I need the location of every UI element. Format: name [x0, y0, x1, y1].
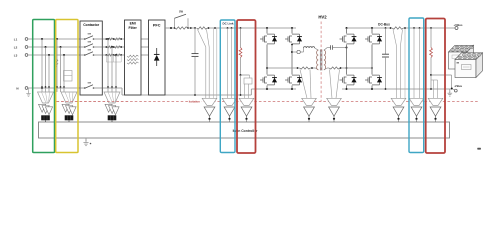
- svg-text:Contactor: Contactor: [83, 23, 100, 27]
- svg-text:HV2: HV2: [318, 15, 327, 20]
- relay precharge SW bypass: [174, 18, 176, 28]
- wire bus shunt to bridge: [208, 27, 297, 29]
- svg-text:L1: L1: [14, 37, 18, 41]
- relay switch L3: [80, 54, 85, 56]
- transistor Q3 (prim bot-left): [260, 79, 263, 81]
- svg-text:Filter: Filter: [129, 26, 138, 30]
- transistor Q8 (sec bot-right): [365, 79, 368, 81]
- inductor resonant Lr: [304, 47, 315, 48]
- resistor fuse pair L2: [107, 46, 113, 48]
- resistor fuse pair L3: [107, 54, 113, 56]
- node sec leg1 midpoint: [346, 47, 348, 49]
- node leg1 top: [266, 27, 268, 29]
- node +Vbus terminal: [455, 27, 458, 30]
- node divider mid: [240, 74, 242, 76]
- node bus: [190, 27, 192, 29]
- svg-text:DC-Bus: DC-Bus: [378, 22, 390, 26]
- node: [266, 67, 268, 69]
- svg-text:Isolation: Isolation: [189, 100, 200, 104]
- wire DC-link voltage sense taps: [227, 27, 229, 29]
- resistor divider R (red): [239, 48, 242, 58]
- sense amp fan 1 (phase V, green zone): [38, 92, 54, 103]
- wire transformer to Cs: [324, 48, 327, 51]
- resistor divider block (yellow zone): [64, 71, 73, 82]
- wire kelvin sense funnel shunt1: [198, 30, 206, 48]
- wire drop fan2-a: [56, 39, 58, 92]
- capacitor DC-link C: [194, 28, 196, 54]
- capacitor output C: [385, 28, 387, 54]
- wire divider2 mid: [430, 58, 432, 76]
- wire divider2 to rail: [430, 75, 432, 89]
- node leg2 top: [291, 27, 293, 29]
- transformer T1 core: [319, 50, 321, 71]
- zone box green (phase voltage sense): [33, 20, 55, 153]
- EMI choke windings: [127, 55, 139, 57]
- wire drop fan3-c: [115, 55, 117, 92]
- capacitor resonant Cr: [292, 51, 297, 53]
- sense amp fan 3 (phase I): [104, 92, 120, 103]
- wire drop fan3-b: [111, 47, 113, 92]
- wire Vbus sense taps: [404, 27, 406, 29]
- wire PFC output bus: [165, 27, 175, 29]
- battery front label: [462, 65, 472, 70]
- node bus tap divider2: [430, 27, 432, 29]
- wire secondary bottom bus: [342, 88, 452, 90]
- svg-text:PFC: PFC: [153, 24, 161, 28]
- wire primary bottom bus: [251, 88, 296, 90]
- resistor precharge R: [175, 27, 189, 29]
- battery rear front marks: [452, 55, 459, 59]
- node drop crosses N: [41, 87, 43, 89]
- battery pack module front: [455, 53, 483, 60]
- resistor secondary shunt: [329, 67, 340, 69]
- wire L2 phase: [28, 46, 85, 48]
- node leg2 midpoint: [291, 51, 293, 53]
- wire divider to rail: [240, 75, 242, 95]
- node tap L3 fan1: [48, 54, 50, 56]
- svg-text:L3: L3: [14, 53, 18, 57]
- relay switch N: [80, 87, 85, 89]
- transistor Q6 (sec top-right): [365, 38, 368, 40]
- node tap L3 fan2: [63, 54, 65, 56]
- ground PE at input: [28, 88, 30, 91]
- op-amp iso sense U3 (divider): [239, 98, 254, 105]
- wire primary leg2: [291, 28, 293, 34]
- wire kelvin funnel output shunt: [393, 30, 397, 48]
- node output cap top: [385, 27, 387, 29]
- svg-text:-VBus: -VBus: [454, 84, 463, 88]
- op-amp iso sense U4 (primary shunt): [302, 98, 317, 105]
- wire return rail under EMI/PFC: [122, 94, 251, 96]
- transistor Q7 (sec bot-left): [340, 79, 343, 81]
- main controller block: [39, 122, 450, 138]
- wire kelvin funnel primary shunt: [300, 70, 307, 99]
- op-amp iso sense U6 (output shunt): [391, 98, 406, 105]
- isolation barrier horizontal (red dashed): [57, 101, 479, 103]
- wire secondary top bus: [347, 27, 393, 29]
- node divider2 mid: [430, 74, 432, 76]
- wire N neutral: [28, 87, 85, 89]
- node: [390, 27, 392, 29]
- ground controller: [85, 138, 87, 141]
- wire L3 contactor to EMI: [102, 54, 124, 56]
- wire divider2 top: [430, 28, 432, 48]
- svg-text:L2: L2: [14, 45, 18, 49]
- wire primary low rail: [267, 67, 300, 69]
- isolation barrier vertical at transformer: [320, 22, 322, 102]
- wire Cs to leg: [332, 47, 346, 49]
- wire drop fan1-b: [45, 47, 47, 92]
- node -Vbus terminal: [451, 88, 453, 90]
- wire drop fan2-c: [63, 55, 65, 92]
- node bus tap divider: [240, 27, 242, 29]
- wire L1 phase: [28, 38, 85, 40]
- divider lower block: [244, 78, 252, 84]
- wire drop fan1-a: [41, 39, 43, 92]
- node tap L2 fan2: [60, 46, 62, 48]
- node sec leg1 top: [346, 27, 348, 29]
- wire L3 EMI to PFC: [141, 54, 149, 56]
- transistor Q4 (prim bot-right): [285, 79, 288, 81]
- wire primary leg1: [266, 28, 268, 34]
- relay switch L1: [80, 38, 85, 40]
- relay switch L2: [80, 46, 85, 48]
- resistor output shunt: [392, 27, 404, 29]
- fuse marks on sense drops: [41, 86, 42, 88]
- svg-text:+VBus: +VBus: [453, 23, 462, 27]
- zone box red primary sense: [237, 20, 256, 153]
- capacitor secondary Cs: [330, 45, 332, 50]
- zone box yellow (phase current sense): [56, 20, 78, 153]
- PFC block: [149, 20, 166, 95]
- resistor fuse pair L1: [107, 38, 113, 40]
- wire L2 contactor to EMI: [102, 46, 124, 48]
- wire transformer sec bottom: [324, 68, 327, 70]
- node cap bottom: [194, 94, 196, 96]
- node tap L1 fan3: [107, 38, 109, 40]
- wire divider2 sense pair: [433, 80, 435, 98]
- wire drop fan1-c: [48, 55, 50, 92]
- node tap L1 fan1: [41, 38, 43, 40]
- surge arrester tie: [105, 55, 107, 62]
- zone box red secondary sense: [426, 19, 445, 154]
- wire extra sense line into U6: [404, 28, 406, 98]
- svg-text:SW: SW: [179, 10, 184, 13]
- zone box cyan DC Link: [220, 20, 235, 153]
- op-amp iso sense U1 (DC-link shunt): [202, 98, 217, 105]
- op-amp iso sense U5 (secondary shunt): [327, 98, 342, 105]
- wire Lr to transformer: [315, 48, 319, 50]
- sense amp fan 2 (phase V, yellow zone): [61, 92, 77, 103]
- resistor divider2 R (red): [430, 48, 433, 58]
- transformer T1 primary winding: [317, 50, 319, 70]
- node tap L2 fan3: [111, 46, 113, 48]
- transistor Q2 (prim top-right): [285, 38, 288, 40]
- svg-text:N: N: [16, 86, 18, 90]
- wire drop fan2-b: [60, 47, 62, 92]
- node PFC out: [170, 27, 172, 29]
- node tap L1 fan2: [56, 38, 58, 40]
- wire divider top: [240, 28, 242, 48]
- resistor DC-link shunt: [197, 27, 208, 29]
- wire shunt to transformer: [311, 67, 316, 69]
- wire to battery terminal: [431, 74, 452, 76]
- svg-text:DC Link: DC Link: [223, 21, 234, 25]
- op-amp iso sense U7 (Vbus V): [409, 98, 424, 105]
- wire extra sense pair into U1: [212, 28, 214, 98]
- node DC-link cap top: [194, 27, 196, 29]
- ground output: [449, 89, 451, 92]
- svg-text:EMI: EMI: [130, 21, 136, 25]
- PFC boost diode: [156, 48, 158, 55]
- op-amp iso sense U8 (divider2): [428, 98, 443, 105]
- transformer T1 secondary winding: [324, 50, 326, 70]
- wire sec low rail: [340, 67, 372, 69]
- wire drop fan3-a: [107, 39, 109, 92]
- wire sec leg2: [371, 28, 373, 34]
- wire L1 EMI to PFC: [141, 38, 149, 40]
- node tap L3 fan3: [115, 54, 117, 56]
- wire L1 contactor to EMI: [102, 38, 124, 40]
- corner mark: [477, 148, 481, 150]
- wire sec leg1: [346, 28, 348, 34]
- wire bus precharge to shunt: [188, 27, 196, 29]
- node sec leg2 top: [371, 27, 373, 29]
- node tap L2 fan1: [45, 46, 47, 48]
- label Isolation: [188, 99, 202, 104]
- wire divider sense pair: [244, 84, 246, 98]
- contactor block: [80, 21, 102, 95]
- resistor small vertical (zone border): [56, 59, 58, 67]
- wire kelvin funnel secondary shunt: [330, 70, 333, 99]
- op-amp iso sense U2 (DC-link V): [222, 98, 237, 105]
- wire divider mid: [240, 58, 242, 76]
- EMI filter block: [125, 20, 142, 95]
- transistor Q1 (prim top-left): [260, 38, 263, 40]
- node leg2 FET stub: [291, 44, 293, 46]
- wire L2 EMI to PFC: [141, 46, 149, 48]
- wire bus shunt to +Vbus: [404, 27, 456, 29]
- transistor Q5 (sec top-left): [340, 38, 343, 40]
- wire N after contactor, jog down to return rail: [94, 87, 122, 89]
- isolation barrier over fans: [57, 101, 131, 103]
- wire L3 phase: [28, 54, 85, 56]
- resistor primary shunt: [300, 67, 311, 69]
- zone box cyan Vbus sense: [409, 18, 424, 153]
- battery pack module rear: [449, 45, 474, 52]
- node: [208, 27, 210, 29]
